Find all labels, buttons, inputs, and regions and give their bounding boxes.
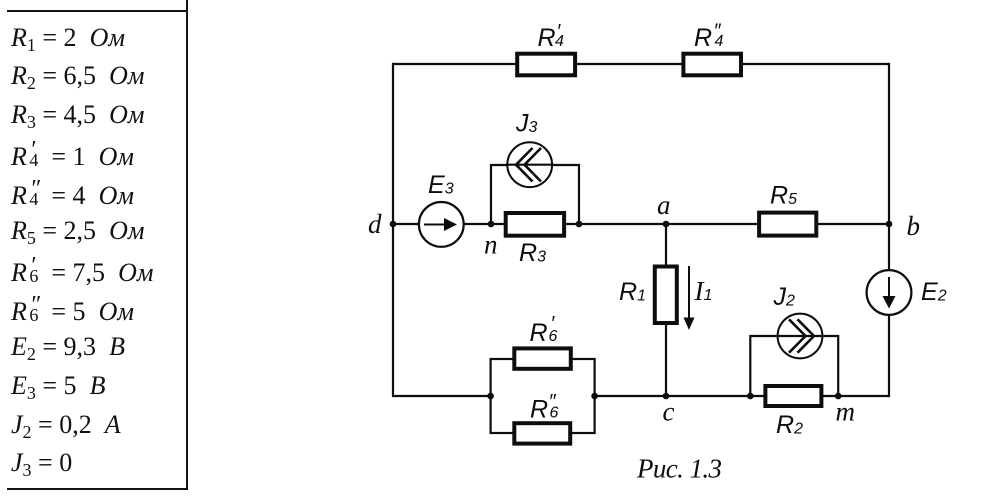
svg-text:n: n	[484, 229, 498, 259]
current arrow I1	[688, 266, 690, 320]
node c	[663, 393, 670, 400]
value R5 = 2,5 Ом	[11, 216, 144, 246]
resistor R4''	[683, 54, 741, 76]
node n	[488, 221, 495, 228]
resistor R3	[506, 213, 564, 236]
value R6' = 7,5 Ом	[11, 255, 153, 288]
wire middle d-a-b	[393, 223, 889, 225]
svg-text:R″6: R″6	[530, 391, 559, 423]
value R1 = 2 Ом	[11, 23, 125, 53]
parameter table top border	[7, 10, 187, 12]
node J2 left junction	[747, 393, 754, 400]
svg-text:R3: R3	[519, 239, 546, 267]
parameter table bottom border	[7, 488, 188, 490]
current source J2 circle	[778, 314, 823, 359]
wire R1 branch a-c	[665, 224, 667, 396]
svg-text:R2: R2	[776, 411, 803, 439]
node a	[663, 221, 670, 228]
current source J3 circle	[507, 142, 552, 187]
node R6 right junction	[591, 393, 598, 400]
wire right vertical	[888, 63, 890, 397]
wire through J3	[506, 164, 554, 166]
resistor R5	[759, 213, 816, 236]
wire left vertical	[392, 63, 394, 397]
svg-text:m: m	[836, 396, 856, 426]
source E2 circle	[867, 270, 912, 315]
source E3 arrow	[424, 224, 446, 226]
resistor R2	[765, 386, 821, 406]
value E3 = 5 В	[11, 371, 105, 401]
value J2 = 0,2 А	[11, 410, 121, 440]
wire J3 loop	[491, 165, 579, 224]
svg-text:R′6: R′6	[530, 313, 558, 347]
node R6 left junction	[487, 393, 494, 400]
svg-text:a: a	[657, 190, 671, 220]
wire J2 loop	[750, 336, 838, 396]
value R2 = 6,5 Ом	[11, 61, 144, 91]
resistor R6'	[514, 348, 571, 368]
value R3 = 4,5 Ом	[11, 100, 144, 130]
resistor R4'	[517, 54, 575, 76]
svg-text:b: b	[907, 211, 921, 241]
svg-text:c: c	[663, 396, 675, 426]
svg-text:R″4: R″4	[694, 21, 724, 52]
svg-text:I1: I1	[694, 276, 713, 306]
value R4' = 1 Ом	[11, 139, 134, 172]
current source J3 chevrons	[516, 148, 533, 182]
svg-text:R′4: R′4	[538, 21, 565, 52]
value R4'' = 4 Ом	[11, 178, 134, 211]
svg-text:J3: J3	[515, 110, 538, 138]
value R6'' = 5 Ом	[11, 294, 134, 327]
svg-text:J2: J2	[773, 283, 796, 311]
node J3 right junction	[576, 221, 583, 228]
svg-text:E3: E3	[428, 171, 454, 199]
wire R6 parallel frame	[491, 359, 595, 433]
svg-text:E2: E2	[921, 278, 947, 306]
wire through J2	[777, 335, 824, 337]
value E2 = 9,3 В	[11, 332, 125, 362]
svg-text:Рис. 1.3: Рис. 1.3	[636, 453, 722, 483]
value J3 = 0	[11, 448, 72, 478]
node b	[886, 221, 893, 228]
current source J2 chevrons	[798, 319, 815, 352]
svg-text:d: d	[368, 209, 382, 239]
resistor R6''	[514, 423, 570, 443]
wire top d-b	[392, 63, 890, 65]
svg-text:R5: R5	[770, 182, 797, 210]
svg-text:R1: R1	[619, 278, 646, 306]
wire bottom left	[393, 395, 491, 397]
source E2 arrow	[888, 277, 890, 298]
parameter table right border	[186, 0, 188, 490]
wire bottom right c-m	[595, 395, 889, 397]
resistor R1	[655, 267, 677, 324]
node m	[835, 393, 842, 400]
node d	[390, 221, 397, 228]
source E3 circle	[419, 202, 464, 247]
